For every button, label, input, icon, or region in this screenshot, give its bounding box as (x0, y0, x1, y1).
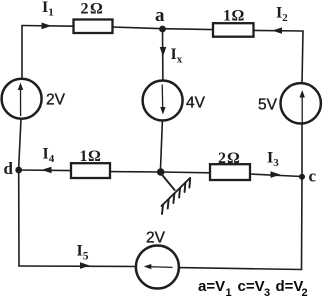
wire center vertical lower (4V source to ground junction) (161, 121, 163, 170)
svg-text:I3: I3 (267, 150, 279, 170)
svg-text:2V: 2V (146, 230, 166, 247)
svg-text:2Ω: 2Ω (81, 1, 105, 18)
wire bottom-left (2V source to bottom-left corner) (19, 265, 136, 268)
node c junction dot (299, 174, 305, 180)
voltage source 5V (right) circle (281, 83, 321, 123)
wire middle row right of junction (junction to 2ohm resistor) (161, 171, 211, 174)
svg-text:I5: I5 (77, 243, 89, 263)
svg-text:Ix: Ix (171, 46, 183, 66)
wire right vertical lower (node c to bottom-right corner) (301, 177, 304, 270)
current arrow I2 head (points left) (272, 27, 282, 33)
wire left vertical upper (2V source to top-left corner) (21, 26, 23, 79)
current arrow I1 head (42, 23, 52, 30)
wire right vertical middle (5V source to node c) (301, 124, 303, 178)
svg-text:d: d (4, 159, 14, 178)
source arrow inside 4V (points down) (160, 85, 165, 115)
voltage source 2V (left) circle (2, 79, 42, 119)
current arrow I5 head (points right) (80, 262, 90, 269)
current arrow I3 head (points right) (271, 171, 281, 178)
ground symbol (hatched earth) (162, 175, 191, 215)
svg-text:I1: I1 (42, 0, 54, 19)
wire top-right (1ohm resistor to top-right corner) (254, 29, 304, 32)
wire middle row center (1ohm resistor to ground junction) (110, 171, 161, 173)
wire left vertical lower (bottom-left corner to node d) (18, 173, 20, 266)
current arrow Ix head (points down) (160, 47, 167, 57)
wire bottom-right (corner to 2V source) (179, 268, 302, 270)
svg-text:2V: 2V (46, 92, 66, 109)
source arrow inside 2V bottom (points left) (144, 264, 173, 269)
source arrow inside 2V left (points up) (18, 83, 23, 117)
svg-text:I4: I4 (43, 146, 55, 166)
node d junction dot (15, 167, 22, 174)
wire left vertical middle (node d to 2V source) (19, 119, 21, 167)
svg-text:a: a (155, 5, 165, 26)
svg-text:1Ω: 1Ω (80, 148, 102, 165)
wire top-middle (2ohm resistor to node a to 1ohm resistor) (113, 27, 214, 30)
resistor R4 2ohm (middle right) (210, 164, 250, 180)
resistor R3 1ohm (middle left) (71, 163, 110, 178)
svg-text:1Ω: 1Ω (223, 8, 245, 25)
voltage source 2V (bottom) circle (136, 246, 179, 289)
resistor R1 2ohm (top left) (74, 20, 113, 34)
wire right vertical upper (corner to 5V source) (302, 31, 303, 84)
voltage source 4V (middle) circle (143, 81, 183, 121)
wire center vertical upper (node a to Ix arrow to 4V source) (162, 29, 164, 81)
current arrow I4 head (points left) (42, 167, 52, 174)
svg-text:2Ω: 2Ω (218, 150, 241, 167)
ground junction dot (157, 168, 165, 176)
svg-text:I2: I2 (276, 5, 288, 25)
wire middle row far right (2ohm resistor to node c) (250, 174, 302, 177)
resistor R2 1ohm (top right) (213, 23, 254, 37)
svg-text:4V: 4V (186, 95, 206, 112)
wire middle row left (node d to 1ohm resistor) (19, 169, 71, 172)
svg-text:c: c (309, 167, 317, 186)
svg-text:a=V1c=V3d=V2: a=V1c=V3d=V2 (198, 278, 308, 299)
wire top-left horizontal (corner to 2ohm resistor) (22, 25, 74, 28)
svg-text:5V: 5V (258, 97, 278, 114)
node a junction dot (159, 26, 166, 33)
source arrow inside 5V (points up) (300, 90, 305, 123)
